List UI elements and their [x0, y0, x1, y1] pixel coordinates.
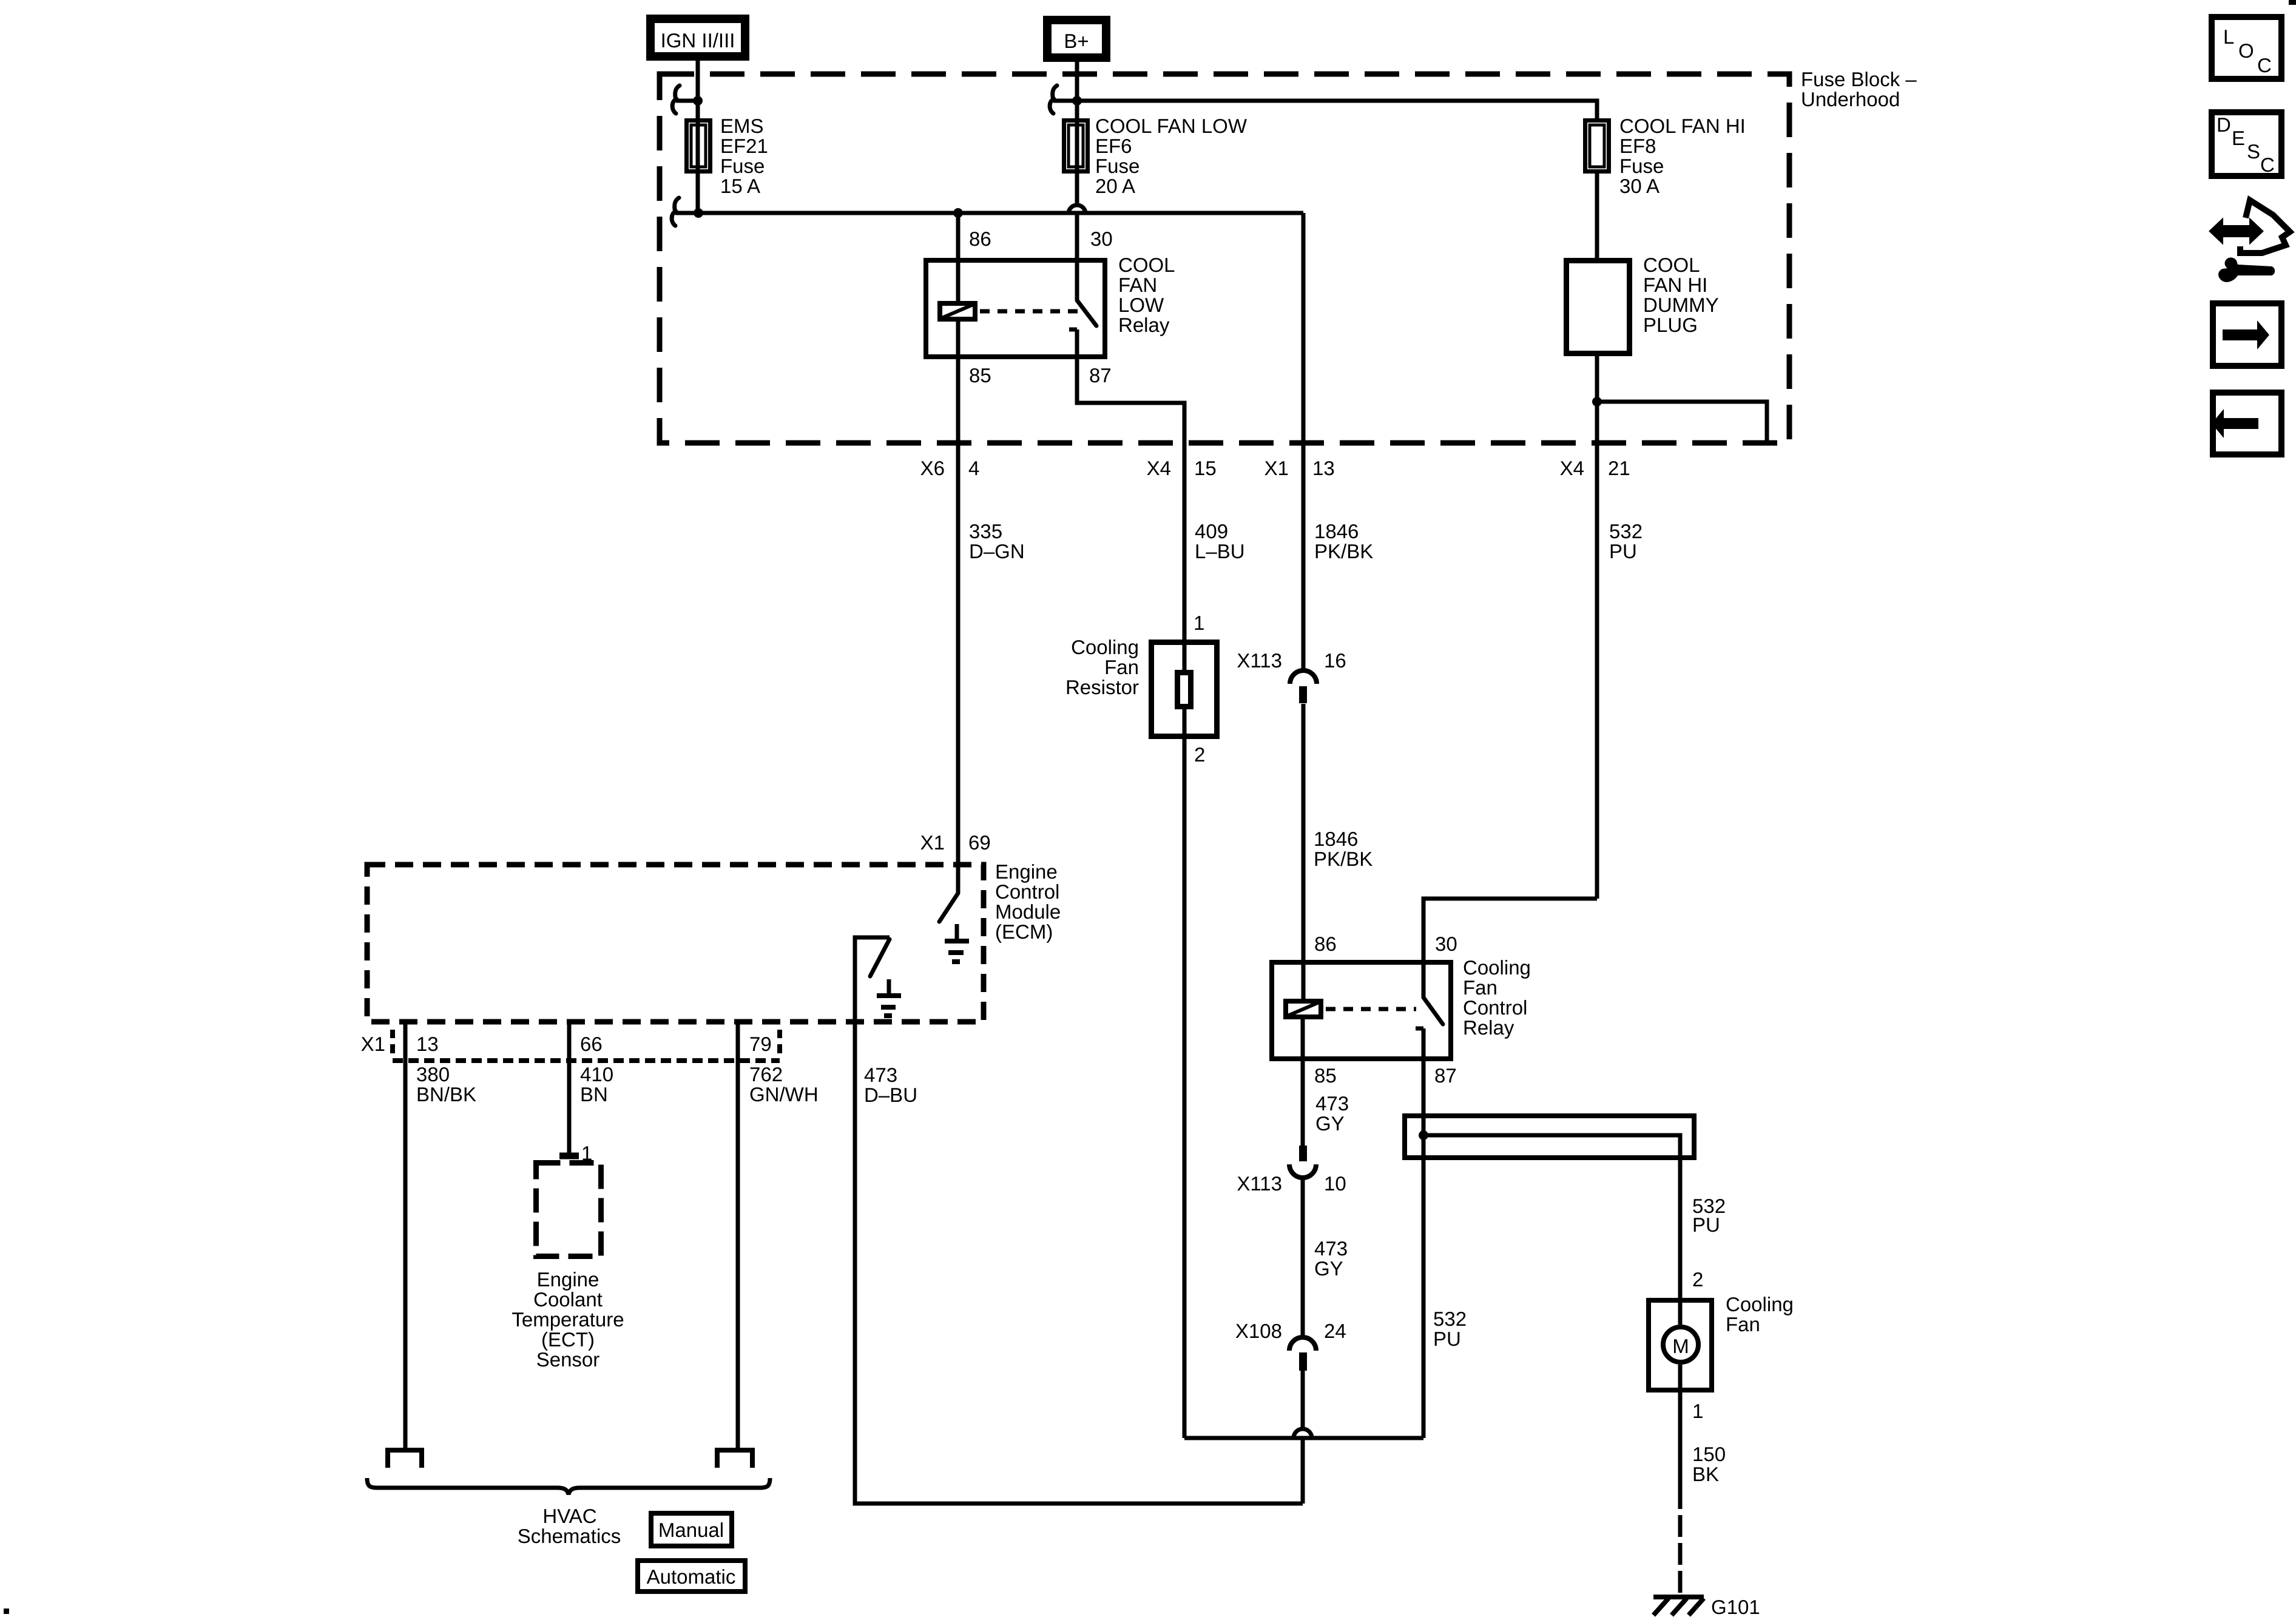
power feed box B+: [1047, 20, 1106, 58]
svg-text:532: 532: [1433, 1308, 1467, 1330]
svg-text:30: 30: [1435, 933, 1457, 955]
svg-text:Coolant: Coolant: [533, 1288, 603, 1311]
label Cooling Fan Control Relay: [1463, 956, 1531, 1039]
svg-text:D–GN: D–GN: [969, 540, 1025, 562]
node bus-relay coil junction dot: [953, 208, 963, 218]
svg-text:X1: X1: [920, 831, 945, 854]
svg-text:2: 2: [1194, 743, 1205, 766]
svg-text:85: 85: [969, 364, 991, 387]
svg-text:E: E: [2232, 127, 2245, 149]
ECT sensor terminal bar: [559, 1153, 579, 1160]
power feed box IGN II/III: [650, 19, 745, 56]
svg-text:Fuse: Fuse: [1095, 155, 1140, 177]
wire EF8 fuse to dummy plug: [1595, 174, 1599, 258]
svg-text:COOL FAN HI: COOL FAN HI: [1619, 115, 1746, 137]
svg-text:S: S: [2247, 140, 2260, 163]
svg-text:409: 409: [1195, 520, 1228, 542]
resistor Cooling Fan Resistor box: [1152, 643, 1217, 737]
node dummy plug branch dot: [1592, 397, 1602, 407]
wire 473 GY below connector: [1301, 1178, 1305, 1337]
svg-text:D–BU: D–BU: [864, 1084, 917, 1106]
label COOL FAN HI DUMMY PLUG: [1643, 254, 1719, 336]
node B+ splice dot: [1072, 96, 1082, 106]
icon forward arrow box: [2213, 303, 2281, 366]
wire horizontal 409 to relay2 87: [1184, 1436, 1423, 1440]
wire label 532 PU fan feed: [1692, 1195, 1726, 1236]
wire resistor pin 2 inside: [1183, 709, 1187, 739]
wire 1846 PK/BK from bus right end down: [1302, 213, 1306, 669]
svg-text:COOL: COOL: [1118, 254, 1175, 276]
connector symbol at B+ stub: [1050, 86, 1057, 113]
connector X108 24 female arc: [1289, 1337, 1316, 1351]
wire stub branch to second cavity: [1597, 402, 1767, 443]
wire label 1846 PK/BK second: [1314, 828, 1373, 870]
wire label 1846 PK/BK: [1314, 520, 1373, 562]
wire B+ connector stub: [1053, 99, 1077, 103]
svg-text:335: 335: [969, 520, 1002, 542]
svg-text:COOL: COOL: [1643, 254, 1700, 276]
svg-text:B+: B+: [1064, 30, 1089, 52]
wire label 762 GN/WH: [749, 1063, 819, 1106]
wire dummy plug to X4 21 and down: [1595, 356, 1599, 899]
label HVAC Schematics: [518, 1505, 621, 1547]
wire ECM pin 13: [403, 1022, 408, 1450]
relay2 switch blade: [1423, 998, 1443, 1024]
HVAC brace: [367, 1478, 770, 1494]
svg-text:X6: X6: [920, 457, 945, 479]
svg-text:87: 87: [1089, 364, 1112, 387]
svg-text:HVAC: HVAC: [542, 1505, 596, 1527]
label COOL FAN LOW Relay: [1118, 254, 1175, 336]
svg-text:Fan: Fan: [1104, 656, 1139, 678]
svg-text:DUMMY: DUMMY: [1643, 294, 1719, 316]
svg-text:4: 4: [968, 457, 979, 479]
svg-text:BN/BK: BN/BK: [416, 1083, 476, 1106]
ECM dashed box: [367, 865, 984, 1022]
ground G101 symbol: [1653, 1597, 1704, 1615]
wire 473 GY below hop: [1301, 1440, 1305, 1504]
wire 150 BK solid: [1678, 1393, 1683, 1509]
svg-text:PU: PU: [1692, 1214, 1720, 1236]
connector symbol at IGN stub: [672, 86, 680, 113]
svg-text:Temperature: Temperature: [512, 1308, 624, 1331]
wire relay1 coil feed 86: [956, 213, 961, 301]
svg-text:X1: X1: [1264, 457, 1289, 479]
wire 532 PU corner to relay2 pin 30: [1423, 899, 1597, 998]
wire label 473 D-BU: [864, 1064, 917, 1106]
fuse COOL FAN HI EF8: [1585, 121, 1609, 172]
terminal lug wire 13: [388, 1450, 422, 1468]
label COOL FAN LOW EF6 Fuse 20 A: [1095, 115, 1248, 197]
wire label 335 D-GN: [969, 520, 1025, 562]
svg-text:GY: GY: [1314, 1257, 1343, 1280]
relay2 dashed actuating link: [1326, 1007, 1416, 1011]
svg-text:66: 66: [580, 1033, 603, 1055]
svg-text:X113: X113: [1237, 1172, 1282, 1195]
ECM switch 1 blade: [939, 893, 958, 922]
relay1 fixed contact tick: [1069, 328, 1077, 332]
relay2 fixed contact tick: [1416, 1027, 1423, 1031]
hyperlink box Manual: [651, 1513, 732, 1546]
svg-text:86: 86: [969, 228, 991, 250]
connector X113 16 female arc: [1290, 670, 1317, 684]
svg-text:PU: PU: [1609, 540, 1637, 562]
svg-text:Fuse: Fuse: [720, 155, 765, 177]
connector label X6 4: [920, 457, 980, 479]
connector X113 16 male pin: [1299, 686, 1307, 703]
fuse EMS EF21: [687, 121, 711, 172]
ECM switch 2 blade: [870, 939, 890, 976]
ECM switch 2 feed corner: [855, 937, 890, 1022]
svg-text:21: 21: [1608, 457, 1630, 479]
svg-text:Manual: Manual: [658, 1519, 724, 1541]
svg-text:380: 380: [416, 1063, 450, 1085]
wire crossover hop 473 over 409-87 wire: [1294, 1429, 1312, 1438]
svg-text:COOL FAN LOW: COOL FAN LOW: [1095, 115, 1248, 137]
fuse COOL FAN LOW EF6: [1064, 121, 1088, 172]
connector X113 10 female arc: [1289, 1164, 1316, 1178]
dummy plug COOL FAN HI box: [1567, 261, 1630, 354]
svg-text:C: C: [2257, 54, 2272, 76]
svg-text:GY: GY: [1315, 1112, 1345, 1135]
wire bus from EMS fuse across fuse block: [675, 211, 1303, 215]
wire relay1 87 jog to X4 15: [1077, 359, 1184, 640]
icon tool wrench: [2218, 257, 2275, 282]
relay COOL FAN LOW box: [926, 260, 1105, 357]
page period mark: [4, 1609, 9, 1614]
svg-text:69: 69: [968, 831, 991, 854]
connector label X108 24: [1235, 1320, 1346, 1342]
label Engine Coolant Temperature (ECT) Sensor: [512, 1268, 624, 1371]
wire fan pin 1 inside: [1678, 1365, 1683, 1393]
connector label X4 15: [1147, 457, 1217, 479]
svg-text:L: L: [2223, 25, 2234, 48]
relay1 switch blade: [1077, 300, 1096, 326]
wire label 532 PU: [1609, 520, 1643, 562]
svg-text:C: C: [2260, 154, 2275, 176]
svg-text:Sensor: Sensor: [536, 1348, 600, 1371]
ground symbol ECM internal 1: [945, 924, 969, 962]
svg-text:1846: 1846: [1314, 828, 1358, 850]
wire relay2 pin 85 down: [1301, 1019, 1305, 1146]
node IGN splice dot: [693, 96, 703, 106]
svg-text:EF6: EF6: [1095, 135, 1132, 157]
svg-text:473: 473: [864, 1064, 897, 1086]
svg-text:EF8: EF8: [1619, 135, 1656, 157]
svg-text:Underhood: Underhood: [1801, 88, 1900, 110]
cooling fan motor box: [1649, 1300, 1712, 1390]
label Fuse Block - Underhood: [1801, 68, 1917, 110]
svg-text:Control: Control: [1463, 996, 1527, 1019]
connector label X1 13: [1264, 457, 1335, 479]
svg-text:GN/WH: GN/WH: [749, 1083, 819, 1106]
wire 409 L-BU resistor pin2 down: [1183, 739, 1187, 1438]
svg-text:O: O: [2238, 39, 2254, 62]
connector X108 24 male pin: [1299, 1352, 1307, 1371]
wire label 150 BK: [1692, 1443, 1726, 1485]
connector X113 10 male pin: [1299, 1146, 1307, 1161]
svg-text:86: 86: [1314, 933, 1337, 955]
wire relay2 pin 87 stub: [1422, 1028, 1426, 1061]
svg-text:Cooling: Cooling: [1726, 1293, 1794, 1315]
svg-text:87: 87: [1434, 1064, 1457, 1087]
icon LOC box: [2212, 17, 2281, 79]
icon tool double arrow: [2210, 220, 2262, 242]
wire fan pin 2 inside: [1678, 1298, 1683, 1325]
svg-text:Fan: Fan: [1463, 976, 1497, 999]
svg-text:13: 13: [416, 1033, 439, 1055]
svg-text:Relay: Relay: [1463, 1016, 1514, 1039]
svg-text:1846: 1846: [1314, 520, 1359, 542]
svg-text:150: 150: [1692, 1443, 1726, 1465]
relay1 coil: [940, 303, 975, 319]
svg-text:Control: Control: [995, 880, 1059, 903]
svg-text:X4: X4: [1560, 457, 1584, 479]
page corner mark: [2289, 0, 2296, 5]
svg-text:20 A: 20 A: [1095, 175, 1135, 197]
svg-text:D: D: [2217, 113, 2231, 136]
wire B+ below bus to relay pin 30: [1075, 215, 1079, 300]
svg-text:(ECM): (ECM): [995, 920, 1053, 943]
svg-text:G101: G101: [1711, 1596, 1760, 1617]
motor M circle: [1663, 1327, 1698, 1362]
svg-text:85: 85: [1314, 1064, 1337, 1087]
svg-text:1: 1: [1194, 612, 1204, 634]
label EMS EF21 Fuse 15 A: [720, 115, 768, 197]
svg-text:IGN II/III: IGN II/III: [661, 29, 735, 52]
resistor element inner rect: [1178, 673, 1191, 707]
ECT sensor dashed box: [536, 1163, 601, 1257]
svg-text:24: 24: [1324, 1320, 1346, 1342]
node junction dot in connector box: [1419, 1130, 1428, 1140]
label Cooling Fan Resistor: [1065, 636, 1139, 698]
hyperlink box Automatic: [638, 1561, 745, 1592]
wire label 410 BN: [580, 1063, 613, 1106]
connector label X113 10: [1237, 1172, 1346, 1195]
svg-text:Schematics: Schematics: [518, 1525, 621, 1547]
svg-text:30 A: 30 A: [1619, 175, 1660, 197]
svg-text:Resistor: Resistor: [1065, 676, 1139, 698]
svg-text:79: 79: [749, 1033, 772, 1055]
svg-text:Fan: Fan: [1726, 1313, 1760, 1335]
svg-text:EF21: EF21: [720, 135, 768, 157]
wire relay1 85 down to ECM: [956, 322, 961, 893]
svg-text:X108: X108: [1235, 1320, 1282, 1342]
wire 473 return to ECM: [855, 1022, 1303, 1504]
svg-text:Engine: Engine: [995, 860, 1058, 883]
wire IGN lead: [696, 61, 700, 213]
svg-text:LOW: LOW: [1118, 294, 1164, 316]
wire label 473 GY second: [1314, 1237, 1348, 1280]
connector label X1 69: [920, 831, 991, 854]
svg-text:13: 13: [1312, 457, 1335, 479]
wire B+ branch to EF8 fuse: [1077, 101, 1597, 118]
wire resistor pin 1 inside: [1183, 640, 1187, 670]
icon DESC box: [2212, 112, 2281, 176]
svg-text:Cooling: Cooling: [1071, 636, 1139, 658]
svg-text:410: 410: [580, 1063, 613, 1085]
wire crossover hop B+ over bus: [1069, 205, 1086, 214]
icon back arrow box: [2212, 393, 2281, 454]
svg-text:Relay: Relay: [1118, 314, 1170, 336]
svg-text:15: 15: [1194, 457, 1217, 479]
connector label X113 16: [1237, 649, 1346, 672]
svg-text:(ECT): (ECT): [541, 1328, 595, 1351]
svg-text:Fuse Block –: Fuse Block –: [1801, 68, 1917, 90]
wire label 473 GY: [1315, 1092, 1349, 1135]
svg-text:Fuse: Fuse: [1619, 155, 1664, 177]
svg-text:30: 30: [1090, 228, 1113, 250]
svg-text:BK: BK: [1692, 1463, 1719, 1485]
svg-text:16: 16: [1324, 649, 1346, 672]
wire 1846 PK/BK below connector: [1302, 704, 1306, 999]
svg-text:PLUG: PLUG: [1643, 314, 1698, 336]
ground symbol ECM internal 2: [877, 979, 901, 1016]
connector symbol at bus left end: [672, 198, 679, 226]
wire B+ lead: [1075, 62, 1079, 204]
svg-text:M: M: [1672, 1335, 1689, 1357]
fuse block underhood dashed box: [660, 74, 1789, 443]
relay2 coil: [1286, 1001, 1321, 1017]
label Cooling Fan: [1726, 1293, 1794, 1335]
svg-text:Automatic: Automatic: [647, 1565, 736, 1588]
inline connector pass-through box: [1405, 1116, 1694, 1158]
svg-text:X113: X113: [1237, 649, 1282, 672]
svg-text:X1: X1: [361, 1033, 385, 1055]
node bus-EMS junction dot: [694, 208, 703, 218]
svg-text:EMS: EMS: [720, 115, 764, 137]
svg-text:Engine: Engine: [537, 1268, 599, 1291]
svg-text:X4: X4: [1147, 457, 1171, 479]
svg-text:BN: BN: [580, 1083, 608, 1106]
svg-text:532: 532: [1609, 520, 1643, 542]
svg-text:10: 10: [1324, 1172, 1346, 1195]
wire IGN connector stub: [676, 99, 698, 103]
relay Cooling Fan Control box: [1272, 962, 1451, 1059]
svg-text:1: 1: [1692, 1400, 1703, 1422]
wire ECM pin 79: [736, 1022, 740, 1450]
wire label 380 BN/BK: [416, 1063, 476, 1106]
svg-text:Cooling: Cooling: [1463, 956, 1531, 979]
relay1 dashed actuating link: [980, 309, 1079, 314]
svg-text:762: 762: [749, 1063, 783, 1085]
wire 473 GY below X108: [1301, 1371, 1305, 1430]
svg-text:473: 473: [1314, 1237, 1348, 1260]
wire 150 BK dashed to ground: [1678, 1515, 1683, 1597]
svg-text:Module: Module: [995, 900, 1061, 923]
wire label 409 L-BU: [1195, 520, 1245, 562]
svg-text:2: 2: [1692, 1268, 1703, 1291]
svg-text:FAN HI: FAN HI: [1643, 274, 1707, 296]
svg-text:15 A: 15 A: [720, 175, 760, 197]
icon tool part outline: [2240, 200, 2290, 253]
wire label 532 PU on 87 wire: [1433, 1308, 1467, 1350]
wire ECM pin 66: [567, 1022, 572, 1153]
wire relay1 pin 87 stub: [1075, 329, 1079, 359]
svg-text:PU: PU: [1433, 1328, 1461, 1350]
connector label X4 21: [1560, 457, 1630, 479]
svg-text:473: 473: [1315, 1092, 1349, 1115]
connector X1 HVAC row dashed strip: [393, 1030, 780, 1061]
wire relay2 87 down: [1422, 1061, 1426, 1438]
svg-text:PK/BK: PK/BK: [1314, 848, 1373, 870]
label COOL FAN HI EF8 Fuse 30 A: [1619, 115, 1746, 197]
svg-text:FAN: FAN: [1118, 274, 1157, 296]
label Engine Control Module (ECM): [995, 860, 1061, 943]
svg-text:L–BU: L–BU: [1195, 540, 1245, 562]
terminal lug wire 79: [717, 1450, 752, 1468]
wire 532 PU branch to cooling fan: [1423, 1135, 1680, 1298]
svg-text:PK/BK: PK/BK: [1314, 540, 1373, 562]
